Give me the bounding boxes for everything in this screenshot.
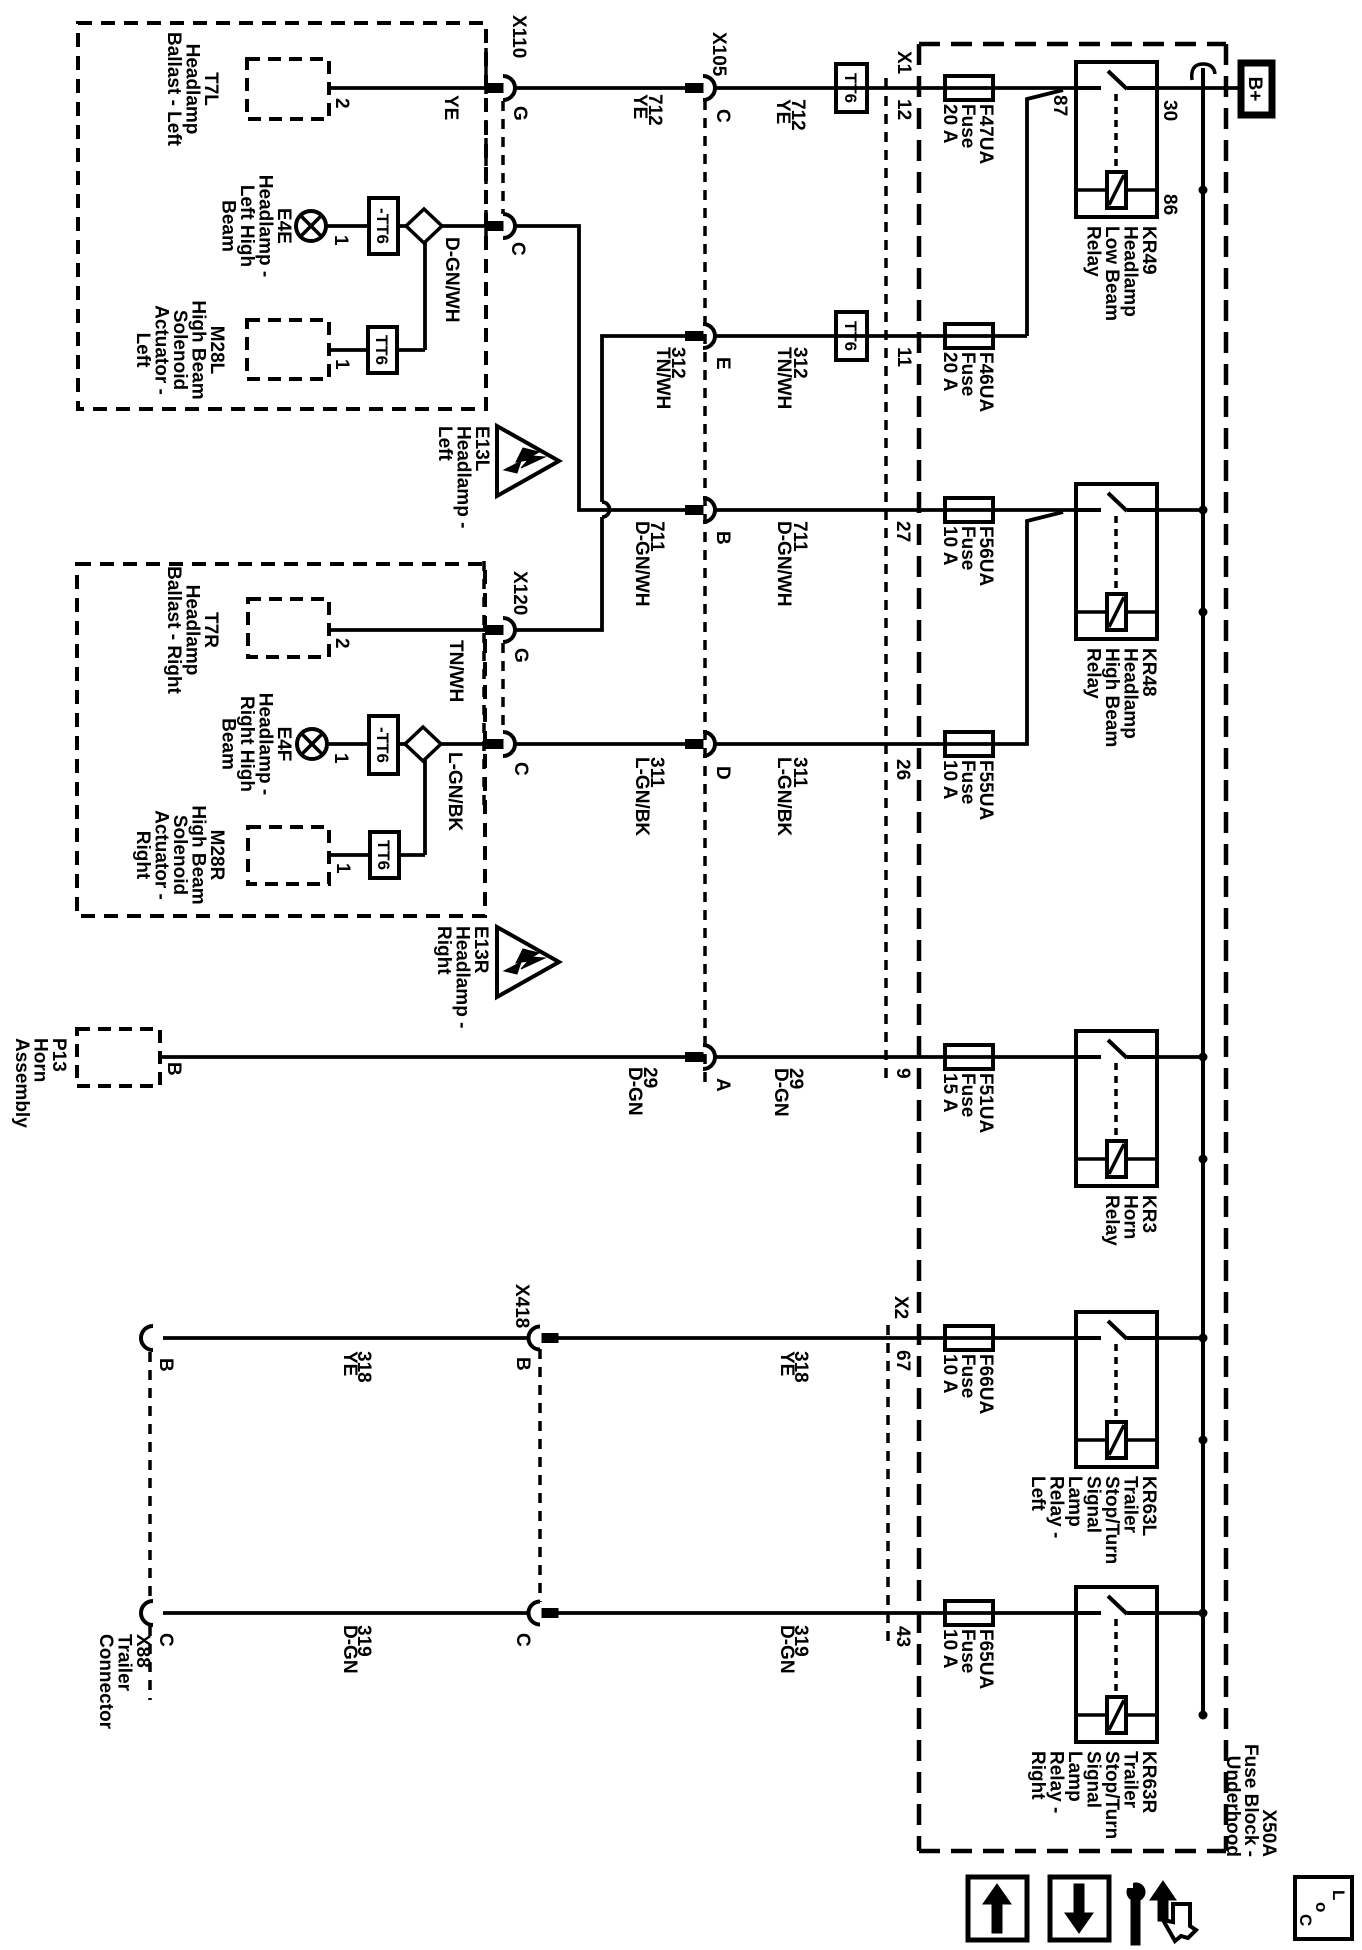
- svg-text:X110: X110: [508, 15, 529, 58]
- icon wrench with arrows: [1124, 1880, 1196, 1945]
- label F55UA: [939, 760, 996, 820]
- svg-text:X418: X418: [511, 1284, 532, 1328]
- connector X418 cavity C: [529, 1602, 559, 1625]
- svg-text:TN/WH: TN/WH: [773, 347, 794, 409]
- wire M28R pin 1 to splice: [329, 760, 425, 855]
- lamp E4F Headlamp Right High Beam: [297, 729, 327, 759]
- svg-text:Beam: Beam: [218, 718, 239, 770]
- wire label 312 TN/WH left: [652, 347, 688, 409]
- lamp E4E Headlamp Left High Beam: [296, 211, 326, 241]
- wire label 311 L-GN/BK right: [773, 757, 810, 836]
- fuse F66UA: [945, 1326, 993, 1350]
- label E4E: [218, 175, 295, 277]
- takeout -TT6 right high beam: [369, 716, 398, 774]
- svg-text:87: 87: [1049, 95, 1070, 116]
- relay KR63R Trailer Stop/Turn Right: [1076, 1587, 1157, 1742]
- connector X105 cavity C: [686, 76, 716, 100]
- svg-text:L: L: [1329, 1890, 1348, 1900]
- svg-text:27: 27: [892, 521, 913, 542]
- svg-text:C: C: [1296, 1914, 1315, 1926]
- fuse F51UA: [945, 1045, 993, 1069]
- label KR3: [1101, 1195, 1159, 1246]
- svg-text:X105: X105: [708, 32, 729, 77]
- svg-text:D-GN: D-GN: [770, 1068, 791, 1117]
- svg-text:Relay: Relay: [1083, 648, 1104, 699]
- wire D-GN/WH from splice to 711 D-GN/WH row: [324, 226, 1203, 510]
- label P13 Horn Assembly: [11, 1038, 69, 1128]
- svg-text:67: 67: [892, 1350, 913, 1371]
- svg-text:B+: B+: [1244, 77, 1265, 102]
- wire label 711 D-GN/WH left: [631, 521, 667, 606]
- svg-text:D-GN: D-GN: [776, 1625, 797, 1674]
- fuse F56UA: [945, 498, 993, 522]
- svg-text:-TT6: -TT6: [373, 727, 392, 763]
- label T7L: [163, 32, 221, 147]
- splice diamond S-right: [405, 727, 441, 761]
- svg-text:E: E: [712, 357, 733, 370]
- wire label 311 L-GN/BK left: [631, 757, 667, 836]
- connector X88 pin C arc: [141, 1601, 153, 1625]
- svg-text:G: G: [510, 648, 531, 663]
- svg-text:D-GN/WH: D-GN/WH: [631, 521, 652, 606]
- warning triangle E13R: [497, 927, 559, 997]
- svg-text:TT6: TT6: [372, 335, 391, 365]
- icon LOC box: [1295, 1877, 1352, 1939]
- dashed box headlamp left assembly: [78, 23, 486, 409]
- svg-text:B: B: [155, 1358, 176, 1372]
- connector line X120: [484, 561, 503, 812]
- label E13L Headlamp Left: [434, 426, 492, 528]
- connector X105 cavity E: [686, 324, 716, 348]
- svg-text:11: 11: [893, 347, 914, 368]
- takeout TT6 M28L: [368, 327, 397, 373]
- takeout -TT6 left high beam: [369, 198, 398, 254]
- wire 311 L-GN/BK row from splice right to fuse F55UA and KR48 pin 87: [328, 512, 1063, 744]
- label F56UA: [939, 526, 996, 586]
- wire M28L pin 1 to splice: [329, 242, 425, 350]
- svg-text:C: C: [507, 242, 528, 256]
- label T7R: [163, 566, 221, 694]
- svg-text:C: C: [512, 1633, 533, 1647]
- T7L Headlamp Ballast - Left dashed box: [247, 59, 329, 119]
- svg-text:C: C: [510, 762, 531, 776]
- P13 Horn Assembly dashed box: [77, 1029, 160, 1086]
- svg-text:30: 30: [1159, 100, 1180, 121]
- M28L High Beam Solenoid Actuator - Left dashed box: [247, 320, 329, 379]
- wire label 318 YE left: [339, 1351, 374, 1383]
- svg-text:L-GN/BK: L-GN/BK: [631, 757, 652, 836]
- connector line X110: [486, 48, 503, 245]
- svg-text:L-GN/BK: L-GN/BK: [444, 752, 465, 831]
- svg-text:X120: X120: [509, 571, 530, 615]
- connector X110 cavity G: [486, 76, 516, 100]
- connector X110 cavity C: [486, 214, 516, 238]
- svg-text:20 A: 20 A: [939, 352, 960, 392]
- wire label 319 D-GN right: [776, 1625, 811, 1674]
- svg-text:YE: YE: [629, 94, 650, 119]
- wire label 29 D-GN right: [770, 1068, 806, 1117]
- svg-text:Underhood: Underhood: [1222, 1756, 1243, 1857]
- svg-text:X2: X2: [890, 1296, 911, 1319]
- wire label 712 YE right: [772, 99, 808, 131]
- svg-text:86: 86: [1159, 194, 1180, 215]
- label KR49: [1083, 226, 1160, 321]
- svg-text:15 A: 15 A: [939, 1073, 960, 1113]
- svg-text:10 A: 10 A: [939, 1354, 960, 1394]
- connector X418 cavity B: [529, 1327, 559, 1350]
- wire label 711 D-GN/WH right: [773, 521, 810, 606]
- label F47UA: [939, 104, 996, 164]
- svg-text:L-GN/BK: L-GN/BK: [773, 757, 794, 836]
- svg-text:YE: YE: [440, 95, 461, 120]
- pin labels KR49: [1049, 95, 1180, 215]
- svg-text:A: A: [712, 1078, 733, 1092]
- relay KR48 Headlamp High Beam: [1076, 484, 1157, 639]
- svg-text:YE: YE: [772, 99, 793, 124]
- svg-text:43: 43: [892, 1626, 913, 1647]
- svg-text:10 A: 10 A: [939, 526, 960, 566]
- B+ bus vertical wire: [1201, 68, 1205, 1716]
- fuse block underhood X50A dashed outline: [919, 44, 1226, 1851]
- svg-text:Connector: Connector: [95, 1634, 116, 1730]
- wire label 712 YE left: [629, 94, 665, 126]
- svg-text:2: 2: [331, 638, 352, 649]
- svg-text:B: B: [712, 531, 733, 545]
- takeout TT6 M28R: [370, 832, 399, 878]
- svg-text:TT6: TT6: [374, 840, 393, 870]
- svg-text:-TT6: -TT6: [373, 208, 392, 244]
- relay KR49 Headlamp Low Beam: [1076, 62, 1157, 217]
- fuse F55UA: [945, 732, 993, 756]
- label M28R: [132, 805, 227, 904]
- svg-text:TN/WH: TN/WH: [652, 347, 673, 409]
- M28R High Beam Solenoid Actuator - Right dashed box: [248, 827, 329, 884]
- label KR48: [1083, 648, 1160, 747]
- B+ terminal box: [1241, 63, 1272, 115]
- icon down arrow box: [1050, 1877, 1109, 1940]
- takeout TT6 row 712: [836, 64, 867, 112]
- svg-text:1: 1: [330, 235, 351, 246]
- T7R Headlamp Ballast - Right dashed box: [248, 599, 329, 657]
- label M28L: [132, 300, 227, 399]
- wire 319 D-GN trailer right row: [163, 1611, 1203, 1615]
- takeout TT6 row 312: [836, 312, 867, 360]
- svg-text:TT6: TT6: [841, 73, 860, 103]
- svg-text:Left: Left: [1027, 1476, 1048, 1512]
- cavity numbers X1: [892, 99, 914, 1079]
- label KR63L: [1027, 1476, 1159, 1564]
- warning triangle E13L: [497, 426, 559, 496]
- svg-text:Relay: Relay: [1101, 1195, 1122, 1246]
- label KR63R: [1027, 1751, 1159, 1839]
- connector line X1: [884, 78, 888, 1085]
- branch fuse F46UA feed from relay KR49 pin 87: [1027, 90, 1063, 336]
- svg-text:G: G: [509, 106, 530, 121]
- svg-text:o: o: [1312, 1902, 1331, 1912]
- splice diamond S-left: [406, 209, 442, 243]
- svg-text:Right: Right: [433, 926, 454, 975]
- connector X105 cavity A: [686, 1045, 716, 1069]
- svg-text:26: 26: [892, 759, 913, 780]
- svg-text:Left: Left: [132, 333, 153, 369]
- connector line X105: [703, 100, 707, 1085]
- wire 29 D-GN horn row: [160, 1055, 1203, 1059]
- label F51UA: [939, 1073, 996, 1133]
- fuse F47UA: [945, 76, 993, 100]
- svg-text:X1: X1: [893, 51, 914, 75]
- svg-text:TT6: TT6: [841, 321, 860, 351]
- svg-text:Relay: Relay: [1083, 226, 1104, 277]
- fuse F46UA: [945, 324, 993, 348]
- svg-text:Left: Left: [434, 426, 455, 462]
- label E4F: [218, 693, 295, 795]
- label F65UA: [939, 1629, 996, 1689]
- label F66UA: [939, 1354, 996, 1414]
- wire label 319 D-GN left: [339, 1625, 374, 1674]
- svg-text:9: 9: [892, 1068, 913, 1079]
- wire label 29 D-GN left: [624, 1067, 660, 1116]
- connector X88 pin B arc: [141, 1326, 153, 1350]
- svg-text:B: B: [163, 1062, 184, 1076]
- relay KR3 Horn: [1076, 1031, 1157, 1186]
- X88 trailer connector dashed line: [148, 1352, 152, 1700]
- connector X120 cavity G: [486, 618, 516, 642]
- svg-text:20 A: 20 A: [939, 104, 960, 144]
- svg-text:2: 2: [331, 98, 352, 109]
- connector X105 cavity D: [686, 732, 716, 756]
- svg-text:Right: Right: [1027, 1751, 1048, 1800]
- svg-text:YE: YE: [339, 1351, 360, 1376]
- dashed box headlamp right assembly: [77, 564, 485, 916]
- connector X105 cavity B: [686, 498, 716, 522]
- svg-text:Ballast - Left: Ballast - Left: [163, 32, 184, 147]
- svg-text:Ballast - Right: Ballast - Right: [163, 566, 184, 694]
- svg-text:YE: YE: [776, 1351, 797, 1376]
- B+ bus hook: [1192, 64, 1215, 80]
- label X88 Trailer Connector: [95, 1634, 153, 1730]
- junction dots on bus: [1199, 186, 1207, 1719]
- fuse F65UA: [945, 1601, 993, 1625]
- svg-text:C: C: [712, 109, 733, 123]
- cavity numbers X2: [892, 1350, 913, 1647]
- svg-text:Assembly: Assembly: [11, 1038, 32, 1128]
- svg-text:D: D: [712, 766, 733, 780]
- svg-text:1: 1: [331, 359, 352, 370]
- svg-text:10 A: 10 A: [939, 1629, 960, 1669]
- wire 712 YE row: T7L pin2 to fuse F47UA to relay KR49: [329, 86, 1238, 90]
- svg-text:1: 1: [330, 753, 351, 764]
- svg-text:12: 12: [893, 99, 914, 120]
- connector X120 cavity C: [486, 732, 516, 756]
- svg-text:Beam: Beam: [218, 200, 239, 252]
- wire 312 TN/WH row to T7R: [329, 336, 1027, 630]
- svg-text:D-GN: D-GN: [624, 1067, 645, 1116]
- svg-text:D-GN/WH: D-GN/WH: [441, 237, 462, 322]
- wire 318 YE trailer left row: [163, 1336, 1203, 1340]
- connector line X2: [886, 1325, 890, 1648]
- svg-text:C: C: [155, 1633, 176, 1647]
- wire hop at 711 row crossing: [602, 502, 610, 517]
- relay KR63L Trailer Stop/Turn Left: [1076, 1312, 1157, 1467]
- label E13R Headlamp Right: [433, 926, 491, 1028]
- svg-text:TN/WH: TN/WH: [445, 640, 466, 702]
- svg-text:B: B: [512, 1357, 533, 1371]
- svg-text:D-GN: D-GN: [339, 1625, 360, 1674]
- svg-text:Right: Right: [132, 831, 153, 880]
- wire label 318 YE right: [776, 1351, 811, 1383]
- svg-text:10 A: 10 A: [939, 760, 960, 800]
- svg-text:1: 1: [332, 863, 353, 874]
- label F46UA: [939, 352, 996, 412]
- connector line X418: [538, 1349, 542, 1602]
- wire label 312 TN/WH right: [773, 347, 810, 409]
- label X50A Fuse Block - Underhood: [1222, 1744, 1279, 1857]
- svg-text:D-GN/WH: D-GN/WH: [773, 521, 794, 606]
- icon up arrow box: [968, 1877, 1027, 1940]
